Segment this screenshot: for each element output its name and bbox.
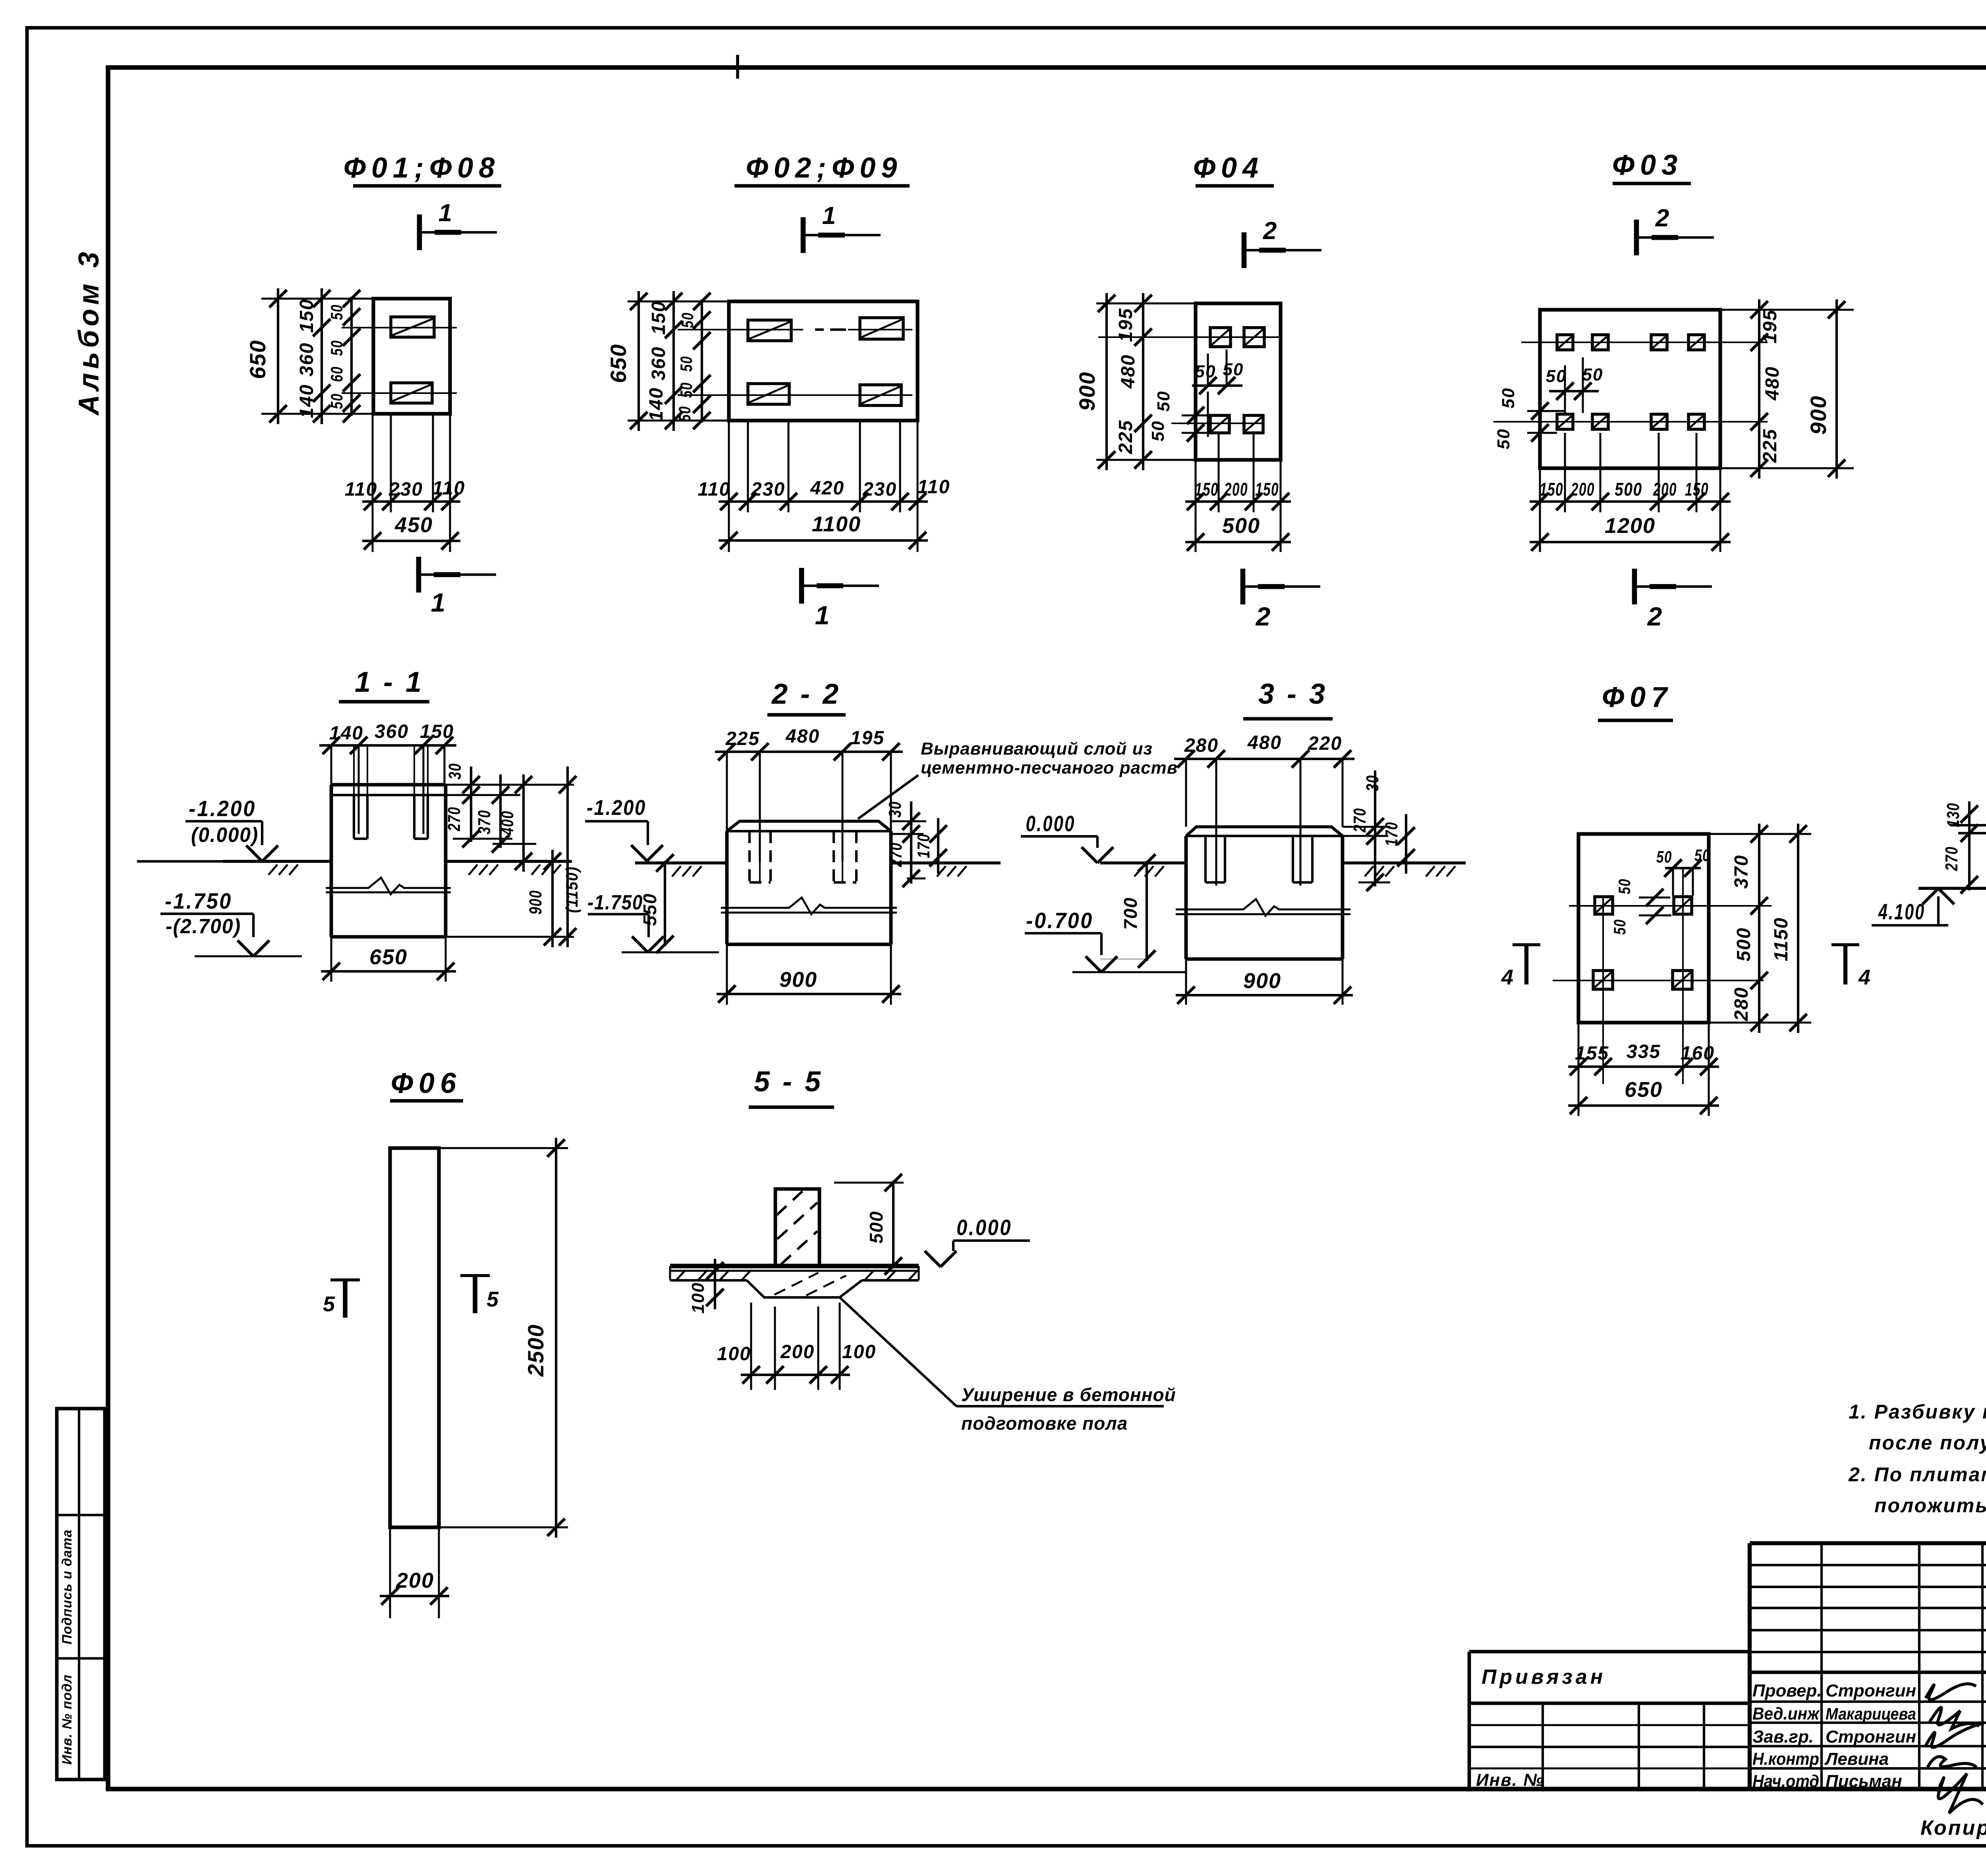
ground line 1-1 [223, 861, 572, 875]
elevation 4.100 4-4 [1872, 888, 1954, 925]
svg-text:195: 195 [1760, 309, 1781, 344]
signer name labels [1824, 1681, 1916, 1791]
svg-text:Левина: Левина [1824, 1749, 1889, 1769]
svg-text:100: 100 [842, 1341, 876, 1363]
svg-text:4: 4 [1858, 965, 1870, 989]
centerlines F04 [1098, 337, 1281, 423]
foundation slab F04 outline [1196, 303, 1281, 460]
svg-text:1100: 1100 [812, 512, 861, 536]
svg-text:280: 280 [1184, 735, 1219, 756]
right dims 30/270/170 2-2 [885, 801, 947, 887]
privyazan sub-table [1469, 1703, 1750, 1791]
plan F06 title [390, 1067, 463, 1101]
svg-text:1: 1 [439, 199, 452, 227]
svg-text:360: 360 [375, 721, 409, 742]
svg-text:335: 335 [1627, 1041, 1661, 1062]
section 1-1 title [339, 666, 429, 702]
bottom dims F04 [1185, 433, 1291, 552]
svg-text:цементно-песчаного раств: цементно-песчаного раств [921, 758, 1178, 778]
svg-text:150: 150 [296, 299, 317, 333]
svg-text:270: 270 [1942, 846, 1961, 871]
elevation 0.000 5-5 [925, 1215, 1030, 1267]
svg-text:50: 50 [1223, 360, 1244, 379]
svg-text:270: 270 [886, 842, 906, 867]
svg-text:Стронгин: Стронгин [1826, 1727, 1916, 1747]
svg-text:400: 400 [498, 811, 517, 836]
bottom dims F02 [698, 421, 950, 552]
elevation 0.000 3-3 [1021, 811, 1113, 863]
svg-text:480: 480 [1762, 366, 1783, 401]
svg-text:900: 900 [779, 968, 817, 992]
svg-text:(0.000): (0.000) [191, 824, 259, 847]
svg-text:195: 195 [850, 728, 885, 749]
svg-text:195: 195 [1115, 308, 1136, 342]
bottom dims F07 [1568, 1023, 1719, 1116]
svg-text:50: 50 [1148, 421, 1168, 442]
svg-text:-1.750: -1.750 [165, 888, 232, 913]
svg-text:50: 50 [327, 340, 346, 356]
svg-text:30: 30 [445, 763, 465, 780]
svg-text:110: 110 [345, 479, 378, 500]
dim 200 F06 [380, 1527, 449, 1618]
svg-text:4: 4 [1501, 965, 1513, 989]
svg-text:900: 900 [1982, 371, 1986, 411]
section mark 2 (bottom) of F03 [1634, 569, 1712, 631]
tall table columns [1822, 1543, 1982, 1789]
svg-text:150: 150 [1195, 479, 1219, 500]
elevation -1.750 2-2 [587, 891, 719, 952]
break line 3-3 [1176, 899, 1350, 916]
svg-text:110: 110 [918, 477, 950, 498]
section mark 2 (top) of F03 [1636, 205, 1714, 255]
vertical dim 550 2-2 [639, 854, 674, 953]
svg-text:140: 140 [329, 723, 363, 744]
section mark 1 (bottom) of F01 [419, 557, 496, 617]
bolt pockets F04 [1210, 328, 1231, 347]
section 3-3 title [1243, 678, 1333, 719]
side stamp [57, 1409, 105, 1779]
foundation slab F07 outline [1578, 834, 1709, 1023]
widening note 5-5 [840, 1297, 1176, 1434]
svg-text:900: 900 [526, 890, 545, 915]
svg-text:550: 550 [639, 893, 660, 926]
svg-text:-1.200: -1.200 [189, 796, 256, 821]
svg-text:270: 270 [444, 807, 464, 832]
svg-text:900: 900 [1074, 371, 1099, 411]
bottom dims F03 [1530, 433, 1731, 552]
svg-text:200: 200 [1653, 479, 1677, 500]
bottom dims 100/200/100 5-5 [717, 1303, 876, 1390]
svg-text:50: 50 [1656, 847, 1672, 866]
svg-text:200: 200 [396, 1569, 434, 1592]
svg-text:150: 150 [648, 301, 669, 335]
svg-text:50: 50 [1546, 367, 1567, 386]
svg-text:1200: 1200 [1605, 514, 1656, 538]
plan F04 title [1193, 152, 1274, 186]
svg-text:50: 50 [1195, 362, 1216, 381]
svg-text:200: 200 [1571, 479, 1595, 500]
tall table rows [1750, 1565, 1986, 1768]
svg-text:230: 230 [751, 479, 785, 500]
svg-text:2: 2 [1647, 602, 1662, 631]
anchor slots (dashed) 2-2 [750, 831, 856, 882]
svg-text:после получения оборудования.: после получения оборудования. [1869, 1432, 1986, 1454]
svg-text:360: 360 [648, 346, 669, 380]
svg-text:500: 500 [1733, 927, 1754, 961]
bolt pocket top F01 [391, 317, 434, 337]
svg-text:1: 1 [822, 202, 836, 230]
svg-text:900: 900 [1243, 969, 1281, 993]
vertical dim 700 3-3 [1100, 854, 1155, 968]
title block main outline [1750, 1543, 1986, 1789]
svg-text:-(2.700): -(2.700) [166, 915, 241, 938]
bottom dim 650 1-1 [321, 937, 456, 982]
svg-text:230: 230 [388, 479, 423, 500]
svg-text:370: 370 [475, 810, 494, 834]
bolt pockets F07 [1593, 897, 1692, 989]
svg-text:270: 270 [1350, 808, 1370, 833]
bolt pockets 1-1 [354, 745, 428, 839]
svg-text:4.100: 4.100 [1878, 899, 1925, 924]
svg-text:130: 130 [1943, 803, 1963, 827]
svg-text:480: 480 [1247, 732, 1282, 753]
svg-text:200: 200 [1224, 479, 1248, 500]
svg-text:Ф02;Ф09: Ф02;Ф09 [746, 152, 903, 184]
svg-text:100: 100 [688, 1282, 708, 1313]
svg-text:Письман: Письман [1826, 1772, 1902, 1791]
plan F07 title [1598, 681, 1673, 720]
svg-text:500: 500 [1615, 479, 1642, 500]
svg-text:170: 170 [914, 834, 933, 858]
svg-text:Подпись и дата: Подпись и дата [60, 1529, 75, 1644]
section mark 5 (right) F06 [460, 1276, 499, 1313]
svg-text:230: 230 [862, 479, 897, 500]
svg-text:480: 480 [1118, 354, 1139, 389]
svg-text:30: 30 [1363, 775, 1382, 791]
top dims 2-2 [715, 726, 903, 862]
break line 2-2 [721, 897, 897, 914]
foundation slab F02 outline [729, 301, 918, 421]
floor line 4-4 [1918, 825, 1986, 888]
left dims 130/270 4-4 [1942, 801, 1978, 894]
svg-text:(1150): (1150) [562, 866, 581, 913]
svg-text:Инв. № подл: Инв. № подл [60, 1674, 75, 1765]
section mark 4 (right) F07 [1831, 945, 1870, 989]
floor slab 5-5 [670, 1266, 919, 1297]
svg-text:2. По плитам перекрытия на отм: 2. По плитам перекрытия на отм. 4.100 по… [1848, 1463, 1986, 1486]
svg-text:225: 225 [1760, 428, 1781, 463]
plan F01;F08 title [344, 152, 501, 186]
beam F06 outline [390, 1148, 439, 1527]
svg-text:650: 650 [245, 340, 270, 379]
centerlines F02 [678, 330, 912, 395]
svg-text:5: 5 [487, 1287, 499, 1311]
small 50x50 dims F04 [1148, 349, 1244, 442]
svg-text:Выравнивающий слой из: Выравнивающий слой из [921, 739, 1153, 759]
section mark 1 (bottom) of F02 [802, 568, 879, 630]
svg-text:1 - 1: 1 - 1 [355, 666, 424, 698]
copied-by line [1920, 1814, 1986, 1839]
section mark 5 (left) F06 [323, 1280, 360, 1318]
right dims F03 [1720, 299, 1854, 479]
foundation body 1-1 [331, 785, 446, 937]
svg-text:50: 50 [678, 312, 697, 328]
svg-text:280: 280 [1731, 987, 1752, 1021]
svg-text:50: 50 [1694, 846, 1710, 865]
elevation -1.200 (0.000) 1-1 [137, 796, 278, 861]
svg-text:Ф01;Ф08: Ф01;Ф08 [344, 152, 500, 184]
centerlines F01 [342, 328, 457, 393]
svg-text:140: 140 [646, 387, 667, 421]
svg-text:50: 50 [1499, 388, 1518, 409]
svg-text:Ф06: Ф06 [391, 1067, 462, 1099]
svg-text:5 - 5: 5 - 5 [754, 1066, 823, 1098]
privyazan box [1469, 1652, 1750, 1791]
svg-text:50: 50 [677, 356, 695, 372]
svg-text:Стронгин: Стронгин [1826, 1681, 1916, 1700]
elevation -1.750 -(2.700) 1-1 [160, 888, 302, 956]
svg-text:700: 700 [1120, 897, 1141, 930]
svg-text:3 - 3: 3 - 3 [1258, 678, 1327, 710]
svg-text:Зав.гр.: Зав.гр. [1752, 1727, 1814, 1747]
left dims F01 [245, 288, 373, 424]
svg-text:2: 2 [1255, 602, 1271, 631]
svg-text:Н.контр: Н.контр [1752, 1749, 1819, 1769]
foundation body 3-3 [1186, 827, 1343, 959]
section mark 2 (top) of F04 [1244, 217, 1321, 268]
plan F02;F09 title [734, 152, 910, 186]
top dims 1-1 [319, 721, 456, 834]
svg-text:150: 150 [1685, 479, 1709, 500]
svg-text:1: 1 [815, 600, 830, 630]
notes [1848, 1401, 1986, 1517]
svg-text:Уширение в бетонной: Уширение в бетонной [961, 1384, 1176, 1405]
anchor slots 3-3 [1206, 836, 1312, 886]
bolt pockets F02 [748, 320, 791, 341]
svg-text:50: 50 [327, 304, 346, 320]
svg-text:Ф03: Ф03 [1612, 149, 1683, 181]
svg-text:2: 2 [1655, 205, 1669, 232]
svg-text:500: 500 [866, 1211, 887, 1244]
svg-text:2 - 2: 2 - 2 [771, 678, 841, 710]
svg-text:170: 170 [1382, 822, 1401, 846]
svg-text:370: 370 [1731, 855, 1752, 889]
svg-text:650: 650 [606, 344, 631, 383]
svg-text:150: 150 [1255, 479, 1279, 500]
bottom dim 900 2-2 [717, 944, 901, 1005]
svg-text:155: 155 [1575, 1043, 1609, 1064]
svg-text:-1.200: -1.200 [587, 796, 646, 820]
top dims 3-3 [1174, 732, 1354, 886]
svg-text:450: 450 [394, 513, 433, 537]
svg-text:420: 420 [810, 478, 844, 499]
section mark 2 (bottom) of F04 [1243, 569, 1320, 631]
break line 1-1 [326, 878, 451, 894]
dim 100 (left) 5-5 [688, 1259, 724, 1314]
section mark 1 (top) of F02 [803, 202, 881, 253]
bottom dim 900 3-3 [1176, 959, 1353, 1005]
svg-text:150: 150 [420, 721, 454, 742]
svg-text:1. Разбивку колодцев под болты: 1. Разбивку колодцев под болты производи… [1849, 1401, 1986, 1423]
svg-text:5: 5 [323, 1292, 335, 1316]
svg-text:110: 110 [698, 479, 731, 500]
section 2-2 title [767, 678, 846, 715]
svg-text:2500: 2500 [523, 1324, 548, 1377]
signer role labels [1752, 1681, 1822, 1791]
bolt pocket bottom F01 [391, 383, 432, 403]
svg-text:-0.700: -0.700 [1026, 908, 1093, 933]
svg-text:0.000: 0.000 [1026, 811, 1076, 836]
bottom dims F01 [345, 299, 466, 552]
ground line 3-3 [1100, 863, 1466, 876]
svg-text:30: 30 [885, 801, 905, 818]
elevation -1.200 2-2 [585, 796, 663, 861]
left dims F02 [606, 291, 729, 431]
right dims F07 [1709, 824, 1811, 1033]
bolt pockets F03 top row [1557, 335, 1704, 350]
svg-text:Привязан: Привязан [1482, 1666, 1606, 1689]
svg-text:900: 900 [1806, 395, 1831, 434]
svg-text:480: 480 [785, 726, 820, 747]
svg-text:2: 2 [1263, 217, 1277, 245]
album label [73, 248, 105, 416]
svg-text:положить сетку 30х3.0 гост 533: положить сетку 30х3.0 гост 5336- 80 ( 5.… [1874, 1494, 1986, 1517]
svg-text:50: 50 [327, 393, 346, 409]
foundation slab F03 outline [1540, 310, 1720, 468]
centerlines F07 [1553, 868, 1772, 1084]
foundation slab F01 outline [373, 299, 450, 414]
small 50x50 dims F03 [1494, 357, 1603, 449]
svg-text:-1.750: -1.750 [587, 891, 643, 914]
svg-text:100: 100 [717, 1343, 751, 1365]
section mark 1 (top) of F01 [419, 199, 497, 250]
svg-text:Вед.инж: Вед.инж [1752, 1704, 1820, 1724]
svg-text:650: 650 [1625, 1078, 1663, 1102]
centerlines F03 [1493, 342, 1768, 422]
leveling layer note 2-2 [858, 739, 1178, 819]
svg-text:Альбом 3: Альбом 3 [73, 248, 105, 416]
svg-text:50: 50 [677, 382, 695, 398]
svg-text:200: 200 [780, 1341, 815, 1363]
svg-text:650: 650 [369, 945, 408, 969]
svg-text:Ф07: Ф07 [1602, 681, 1673, 713]
svg-text:Копировал: Копировал [1920, 1816, 1986, 1839]
svg-text:1: 1 [431, 588, 446, 617]
small 50x50 dims F07 [1610, 846, 1710, 935]
svg-text:50: 50 [1615, 878, 1634, 894]
left dims F05 [1982, 298, 1986, 479]
svg-text:50: 50 [1494, 428, 1513, 450]
svg-text:50: 50 [1154, 391, 1173, 412]
signatures [1926, 1684, 1984, 1813]
svg-text:подготовке пола: подготовке пола [961, 1413, 1128, 1434]
svg-text:220: 220 [1308, 733, 1342, 754]
fold mark [736, 55, 739, 79]
svg-text:0.000: 0.000 [956, 1215, 1012, 1240]
svg-text:160: 160 [1681, 1043, 1715, 1064]
svg-text:225: 225 [1115, 420, 1136, 454]
svg-text:50: 50 [1610, 919, 1629, 935]
svg-text:Провер.: Провер. [1752, 1681, 1822, 1700]
svg-text:150: 150 [1540, 479, 1563, 500]
svg-text:Ф04: Ф04 [1193, 152, 1264, 184]
section 5-5 title [749, 1066, 834, 1107]
right dims 1-1 [444, 763, 581, 947]
ground line 2-2 [635, 863, 1001, 876]
svg-text:50: 50 [1582, 365, 1603, 384]
svg-text:Нач.отд: Нач.отд [1752, 1772, 1819, 1791]
svg-text:110: 110 [433, 478, 466, 499]
svg-text:500: 500 [1222, 514, 1260, 538]
left dims F04 [1074, 293, 1196, 470]
svg-text:140: 140 [296, 384, 317, 418]
svg-text:60: 60 [327, 366, 346, 382]
elevation -0.700 3-3 [1025, 908, 1186, 972]
foundation body 2-2 [727, 821, 891, 944]
right dims 30/270/170 3-3 [1343, 770, 1415, 891]
dim 500 5-5 [834, 1174, 904, 1275]
svg-text:1150: 1150 [1771, 917, 1792, 961]
svg-text:50: 50 [675, 406, 694, 422]
column 5-5 [775, 1189, 819, 1266]
bolt pockets F03 bottom row [1557, 414, 1704, 429]
dim 2500 F06 [439, 1138, 568, 1538]
svg-text:Макарицева: Макарицева [1826, 1704, 1916, 1723]
svg-text:Инв. №: Инв. № [1476, 1770, 1544, 1790]
svg-text:360: 360 [296, 342, 317, 376]
plan F03 title [1612, 149, 1691, 183]
svg-text:225: 225 [725, 728, 760, 749]
section mark 4 (left) F07 [1501, 945, 1540, 989]
